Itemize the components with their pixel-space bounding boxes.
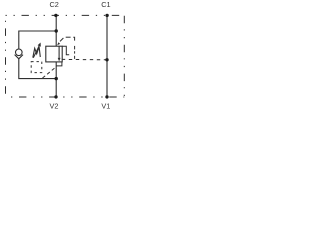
check valve CV seat xyxy=(15,55,23,59)
node pilot junction xyxy=(105,58,108,61)
valve body box xyxy=(46,46,62,62)
node branch junction xyxy=(55,29,58,32)
pilot branch diagonal (dashed) xyxy=(60,38,63,41)
check valve CV ball xyxy=(15,49,22,56)
svg-text:C2: C2 xyxy=(50,0,59,9)
node V2 xyxy=(54,95,57,98)
pilot branch top horizontal (dashed) xyxy=(66,36,71,38)
node C2 xyxy=(54,14,57,17)
wire V2 line lower segment xyxy=(55,62,57,97)
pilot branch top corner (dashed) xyxy=(73,37,74,40)
wire C1-V1 line xyxy=(106,15,108,97)
node bottom junction xyxy=(55,77,58,80)
wire check valve branch top xyxy=(19,31,56,49)
wire C2 line upper segment xyxy=(55,15,57,46)
pilot piston (dashed box) xyxy=(31,62,42,73)
svg-text:V2: V2 xyxy=(50,101,59,110)
spring xyxy=(33,47,41,58)
wire check valve branch bottom xyxy=(19,59,56,79)
valve flow arrow xyxy=(58,46,60,58)
enclosure dash-dot boundary left xyxy=(5,15,7,97)
pilot branch vertical (dashed) xyxy=(74,46,76,50)
pilot sense line (dashed diagonal) xyxy=(43,67,57,78)
pilot line from C1 (dashed) xyxy=(62,58,107,60)
svg-text:V1: V1 xyxy=(101,101,110,110)
background xyxy=(0,0,130,112)
node C1 xyxy=(105,14,108,17)
enclosure dash-dot boundary top xyxy=(6,14,125,16)
enclosure dash-dot boundary right xyxy=(123,15,125,97)
valve outlet step bottom-right xyxy=(56,62,62,66)
spring adjustment arrow xyxy=(33,45,39,58)
valve pilot port step top-right xyxy=(62,46,69,55)
pilot arrowhead at valve inlet xyxy=(57,42,60,45)
node V1 xyxy=(105,95,108,98)
svg-text:C1: C1 xyxy=(101,0,110,9)
enclosure dash-dot boundary bottom xyxy=(6,96,125,98)
